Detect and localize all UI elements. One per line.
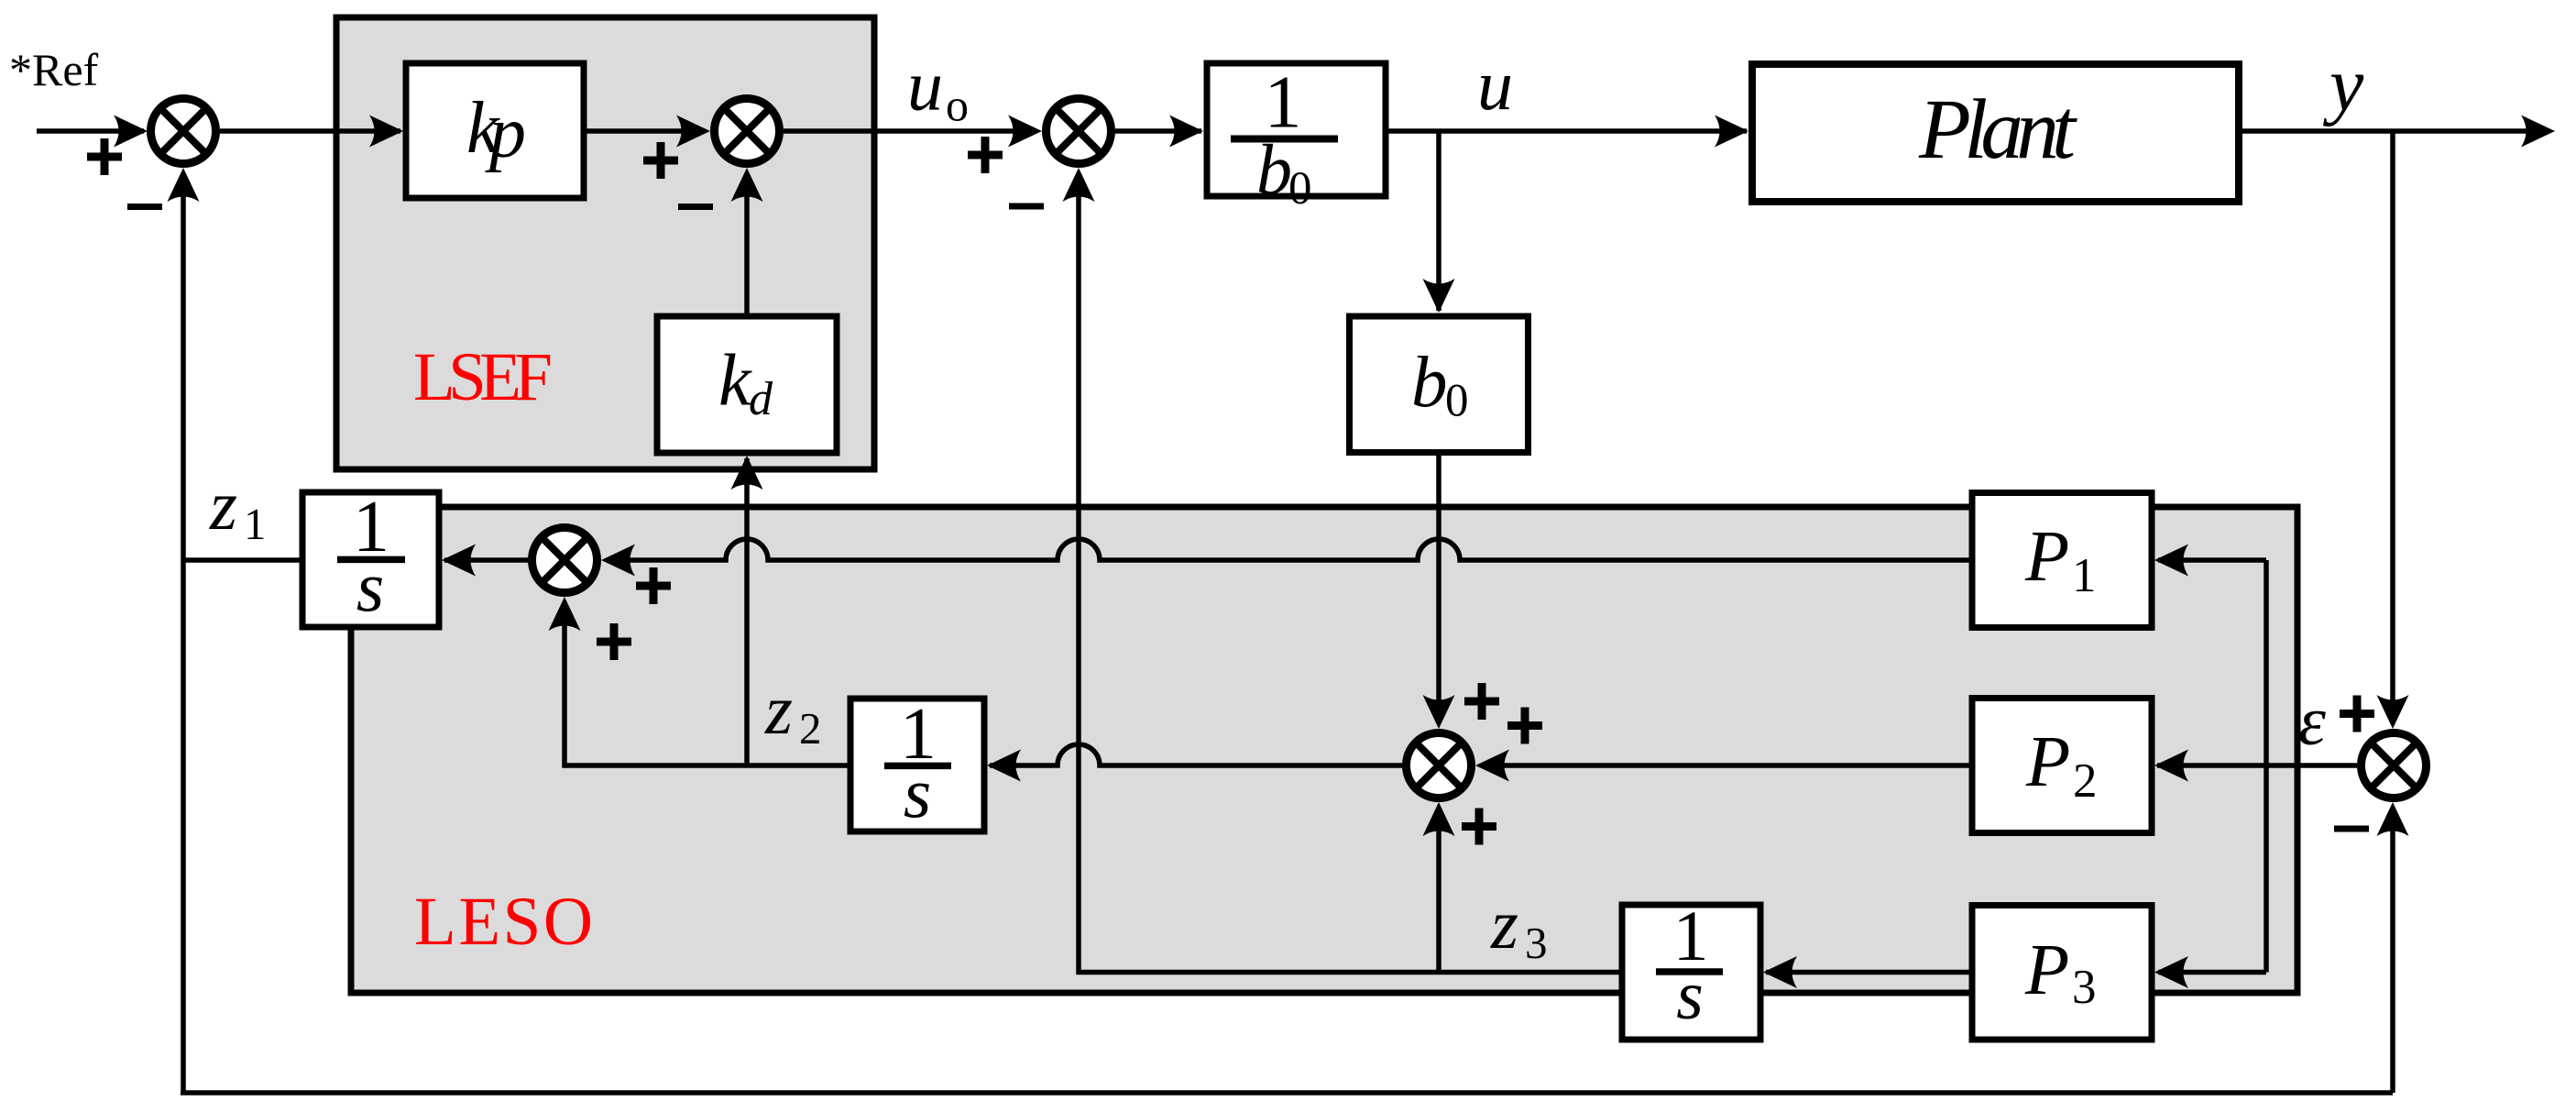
block 1/s z1 integrator [302, 487, 439, 627]
wire: P3 output into 1/s z3 [1763, 956, 1970, 988]
summing junction J4 [532, 528, 597, 593]
wire: 1/b0 to Plant carrying u [1386, 116, 1748, 148]
block 1/b0 [1207, 61, 1386, 215]
sign plus at J5 right input [1507, 708, 1542, 744]
wire: J1 to kp [220, 116, 403, 148]
wire: epsilon into P1 [2154, 545, 2266, 577]
block P2 [1972, 699, 2152, 833]
block b0 [1350, 316, 1529, 453]
wire: y branch down into J6 [2377, 131, 2409, 729]
svg-text:p: p [485, 93, 526, 173]
wire: bottom right vertical into J6 [2377, 802, 2409, 1093]
svg-text:3: 3 [2072, 961, 2097, 1014]
wire: P1 output long line into J4 with three hops [601, 539, 1972, 577]
wire: J3 to 1/b0 [1115, 116, 1203, 148]
wire: kd output up into J2 [731, 168, 763, 316]
sign plus at J6 top input [2340, 696, 2374, 732]
svg-text:3: 3 [1525, 918, 1548, 968]
block Plant [1752, 64, 2239, 202]
wire: P2 output into J5 [1475, 750, 1972, 782]
svg-text:u: u [1477, 45, 1513, 125]
svg-text:o: o [946, 80, 969, 131]
svg-text:d: d [749, 373, 773, 425]
sign plus at J2 [643, 142, 678, 179]
wire: 1/s z1 output to left vertical [183, 557, 302, 563]
wire: z2 branch up into kd [731, 456, 763, 765]
LSEF region box [336, 17, 874, 469]
svg-text:1: 1 [244, 499, 267, 549]
svg-text:0: 0 [1445, 375, 1469, 426]
wire: Ref input into J1 [37, 116, 148, 148]
sign plus at J4 right input [636, 567, 671, 604]
block kp [406, 63, 584, 198]
svg-text:s: s [904, 753, 931, 832]
LESO region box [351, 507, 2297, 993]
wire: u branch down into b0 [1423, 131, 1455, 313]
wire: left feedback vertical from J1 down [168, 168, 200, 1093]
wire: b0 output down into J5 [1423, 453, 1455, 729]
svg-text:u: u [907, 46, 943, 126]
svg-text:LSEF: LSEF [413, 339, 553, 415]
wire: epsilon distribution vertical [2264, 560, 2269, 973]
svg-text:z: z [1490, 885, 1518, 963]
svg-text:P: P [2024, 517, 2069, 597]
svg-text:Plant: Plant [1918, 83, 2077, 177]
wire: 1/s z2 output left then up into J4 [549, 597, 851, 765]
wire: kp to J2 [584, 116, 710, 148]
sign minus at J1 [127, 204, 162, 210]
svg-text:P: P [2025, 722, 2070, 802]
sign plus at J1 [87, 138, 122, 175]
svg-text:P: P [2024, 930, 2069, 1010]
block P3 [1972, 906, 2152, 1040]
block P1 [1972, 493, 2152, 628]
sign plus at J3 [968, 137, 1003, 173]
sign plus at J5 top input [1464, 683, 1499, 720]
sign minus at J6 bottom input [2334, 826, 2369, 832]
svg-text:*Ref: *Ref [9, 44, 99, 95]
svg-text:LESO: LESO [414, 884, 593, 960]
wire: J2 to J3 carrying uo [784, 116, 1042, 148]
wire: J4 output into 1/s z1 [442, 545, 528, 577]
wire: J6 epsilon output into P2 [2154, 750, 2357, 782]
summing junction J2 [715, 99, 780, 164]
wire: J5 output into 1/s z2 with hop [987, 744, 1402, 782]
svg-text:2: 2 [2073, 754, 2098, 808]
sign plus at J4 bottom input [597, 623, 631, 660]
summing junction J1 [151, 99, 216, 164]
svg-text:2: 2 [799, 703, 822, 754]
sign plus at J5 bottom input [1462, 809, 1496, 845]
svg-text:0: 0 [1288, 163, 1312, 215]
block 1/s z2 integrator [850, 694, 984, 832]
summing junction J5 [1407, 733, 1472, 798]
svg-text:s: s [1676, 957, 1704, 1034]
sign minus at J3 [1009, 204, 1044, 210]
summing junction J3 [1047, 99, 1112, 164]
wire: z3 line left then up into J3 [1063, 168, 1623, 973]
wire: bottom feedback line [181, 1090, 2393, 1095]
svg-text:z: z [209, 466, 237, 545]
svg-text:b: b [1411, 343, 1448, 423]
svg-text:k: k [718, 341, 752, 422]
summing junction J6 epsilon [2362, 733, 2427, 798]
sign minus at J2 [678, 204, 713, 210]
svg-text:1: 1 [2072, 549, 2097, 602]
svg-text:b: b [1256, 129, 1292, 209]
wire: z3 branch up into J5 [1423, 802, 1455, 973]
wire: epsilon into P3 [2154, 956, 2266, 988]
block kd [657, 316, 837, 453]
block 1/s z3 integrator [1622, 896, 1760, 1040]
svg-text:z: z [764, 670, 793, 749]
svg-text:s: s [356, 546, 384, 626]
svg-text:ε: ε [2298, 683, 2326, 760]
wire: Plant to output y [2239, 116, 2555, 148]
